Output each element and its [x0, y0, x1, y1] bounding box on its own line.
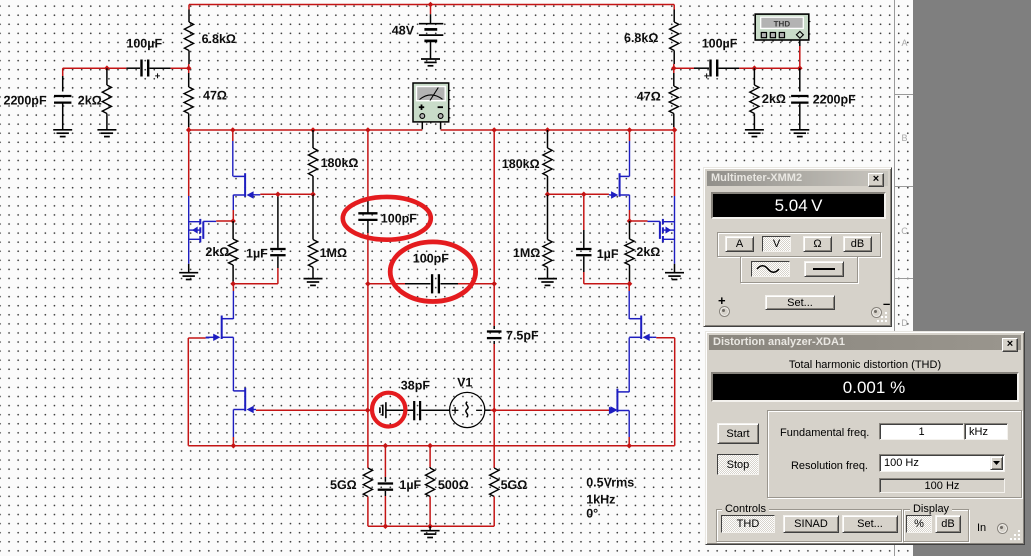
svg-text:100µF: 100µF	[702, 37, 738, 51]
svg-text:1MΩ: 1MΩ	[320, 246, 347, 260]
svg-text:47Ω: 47Ω	[637, 90, 661, 104]
svg-text:100pF: 100pF	[413, 252, 449, 266]
svg-text:5GΩ: 5GΩ	[501, 478, 528, 492]
svg-text:38pF: 38pF	[401, 379, 431, 393]
svg-text:V1: V1	[457, 376, 472, 390]
svg-text:47Ω: 47Ω	[203, 89, 227, 103]
svg-text:48V: 48V	[392, 24, 415, 38]
svg-text:180kΩ: 180kΩ	[502, 157, 540, 171]
svg-text:1µF: 1µF	[597, 247, 619, 261]
svg-text:THD: THD	[774, 19, 791, 28]
svg-text:+: +	[704, 71, 710, 82]
svg-text:7.5pF: 7.5pF	[506, 329, 539, 343]
svg-text:180kΩ: 180kΩ	[321, 156, 359, 170]
svg-text:1µF: 1µF	[399, 478, 421, 492]
svg-text:2200pF: 2200pF	[4, 94, 47, 108]
svg-text:0.5Vrms: 0.5Vrms	[586, 476, 634, 490]
svg-text:100µF: 100µF	[126, 37, 162, 51]
svg-text:500Ω: 500Ω	[438, 478, 469, 492]
svg-text:0°: 0°	[586, 507, 598, 521]
svg-text:5GΩ: 5GΩ	[330, 478, 357, 492]
svg-text:2200pF: 2200pF	[813, 93, 856, 107]
svg-text:1MΩ: 1MΩ	[513, 246, 540, 260]
svg-text:2kΩ: 2kΩ	[205, 245, 229, 259]
svg-text:6.8kΩ: 6.8kΩ	[624, 31, 658, 45]
svg-text:2kΩ: 2kΩ	[78, 94, 102, 108]
svg-text:+: +	[155, 71, 161, 82]
svg-text:1kHz: 1kHz	[586, 493, 615, 507]
svg-text:2kΩ: 2kΩ	[636, 245, 660, 259]
svg-text:6.8kΩ: 6.8kΩ	[202, 32, 236, 46]
svg-text:2kΩ: 2kΩ	[762, 92, 786, 106]
svg-text:100pF: 100pF	[381, 212, 417, 226]
svg-text:1µF: 1µF	[246, 247, 268, 261]
